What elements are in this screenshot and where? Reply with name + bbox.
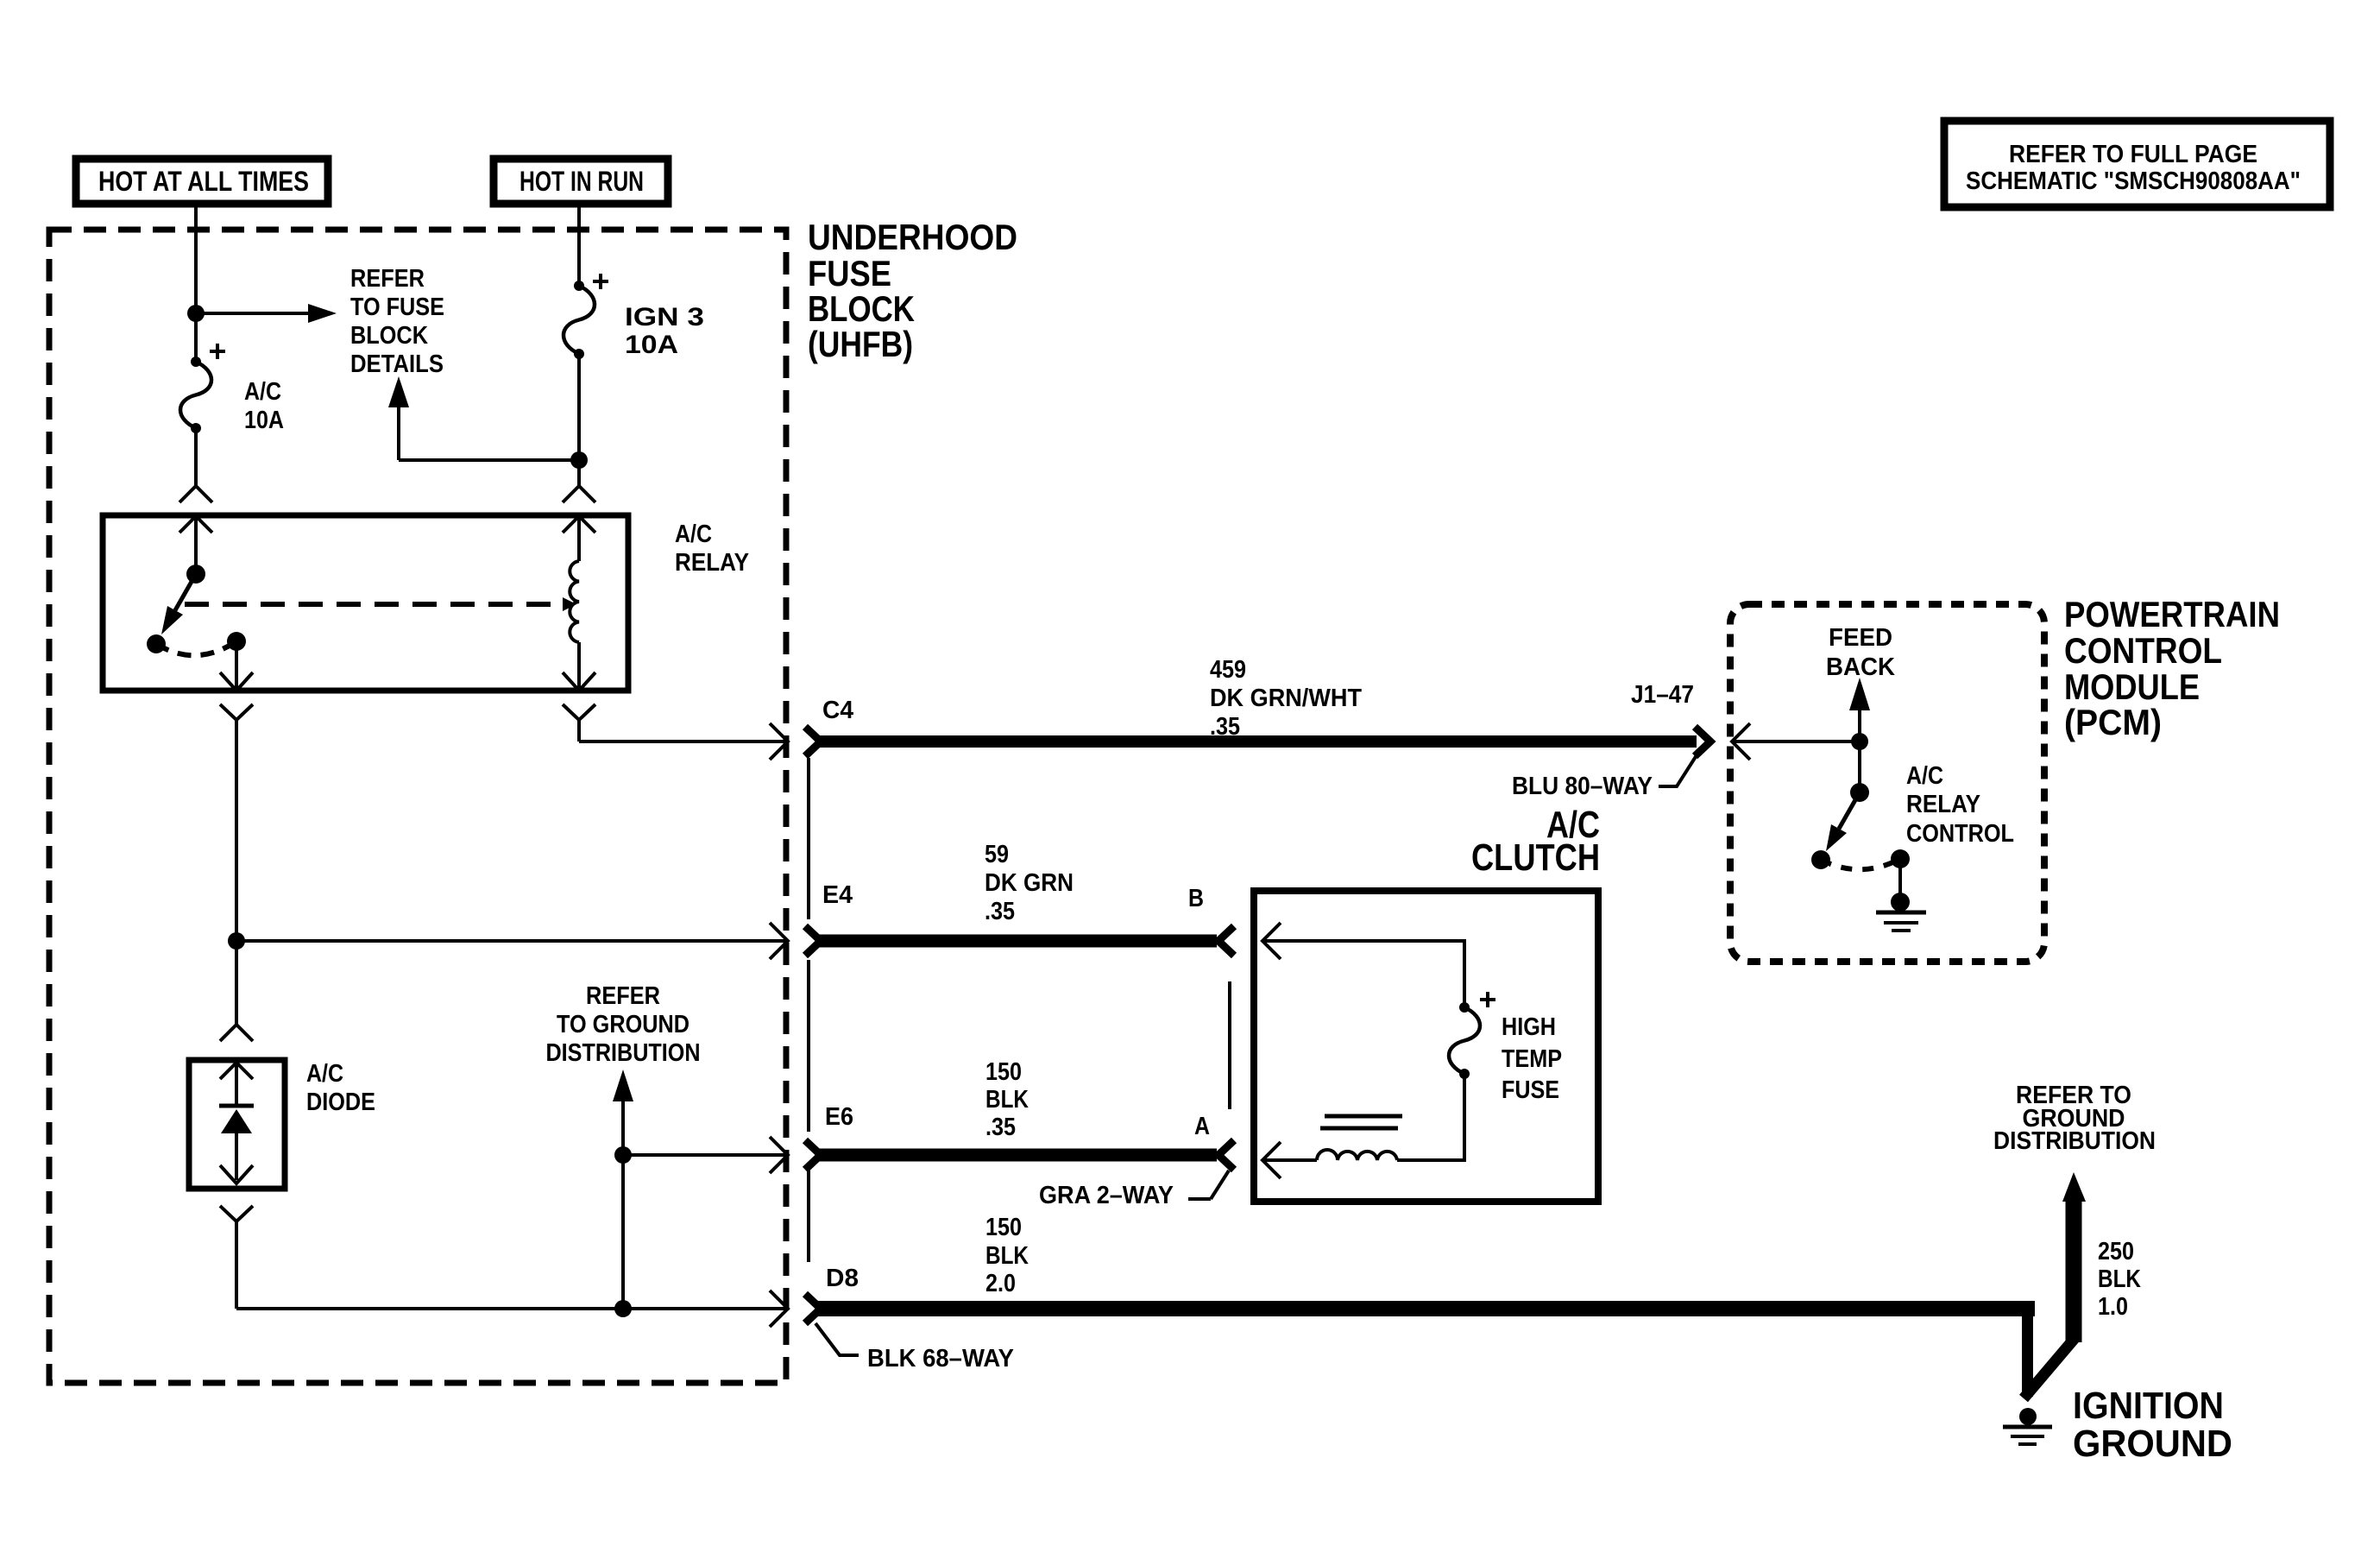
wire 459 C4 to J1-47 (805, 727, 1710, 756)
junction node E6 (614, 1146, 632, 1164)
relay contact right (227, 632, 246, 651)
wire IGN3 fuse to junction (577, 354, 581, 460)
svg-text:REFER: REFER (586, 982, 660, 1010)
wire to E6 (623, 1153, 786, 1157)
svg-text:DETAILS: DETAILS (350, 350, 444, 378)
label A/C RELAY (675, 521, 749, 577)
pin label E6 (825, 1103, 853, 1131)
relay coil (570, 561, 579, 691)
svg-text:FUSE: FUSE (1502, 1076, 1559, 1104)
svg-text:GRA 2–WAY: GRA 2–WAY (1039, 1182, 1174, 1209)
pin label J1-47 (1631, 681, 1694, 709)
svg-text:TO FUSE: TO FUSE (350, 293, 444, 321)
svg-text:A/C: A/C (1906, 762, 1943, 790)
svg-text:REFER: REFER (350, 265, 425, 293)
border arrow D8 (770, 1290, 788, 1327)
wire coil pin to C4 (579, 740, 786, 743)
relay switch output wire (235, 641, 238, 691)
svg-text:CONTROL: CONTROL (2064, 630, 2222, 671)
border arrow E6 (770, 1137, 788, 1173)
svg-text:BLK: BLK (985, 1242, 1029, 1270)
svg-text:TO GROUND: TO GROUND (557, 1011, 689, 1038)
svg-text:J1–47: J1–47 (1631, 681, 1694, 709)
svg-text:FUSE: FUSE (808, 253, 891, 293)
label IGNITION GROUND (2073, 1385, 2232, 1465)
label box HOT IN RUN (494, 159, 668, 204)
relay common node (186, 565, 205, 584)
ignition ground node (2019, 1408, 2037, 1425)
wire label 250 BLK 1.0 (2098, 1238, 2141, 1321)
connector female half at relay coil pin (563, 486, 595, 502)
PCM switch contact right (1891, 849, 1910, 868)
pin label D8 (826, 1265, 859, 1292)
border arrow E4 (770, 923, 788, 959)
connector line B to A (1228, 981, 1231, 1109)
svg-text:BLOCK: BLOCK (808, 288, 915, 329)
relay contact left (147, 634, 166, 653)
svg-text:UNDERHOOD: UNDERHOOD (808, 217, 1017, 257)
PCM switch arm (1826, 792, 1860, 851)
svg-text:BACK: BACK (1826, 653, 1895, 681)
svg-text:DIODE: DIODE (306, 1089, 375, 1116)
label UNDERHOOD FUSE BLOCK (UHFB) (808, 217, 1017, 364)
clutch coil (1262, 1074, 1464, 1178)
connector female half below relay coil (563, 704, 595, 741)
junction node A/C feed (187, 305, 205, 322)
underhood fuse block (UHFB) dashed enclosure (49, 230, 786, 1383)
svg-text:GROUND: GROUND (2073, 1423, 2232, 1465)
PCM switch common node (1850, 783, 1869, 802)
svg-text:A/C: A/C (306, 1060, 343, 1088)
svg-text:10A: 10A (625, 331, 678, 359)
svg-text:E4: E4 (822, 881, 853, 909)
connector male half relay coil bottom (563, 672, 595, 691)
label A/C 10A (244, 378, 284, 434)
PCM switch contact left (1811, 850, 1830, 869)
svg-text:150: 150 (985, 1058, 1022, 1086)
wire from HOT IN RUN (577, 205, 581, 286)
connector female half below diode (220, 1206, 253, 1221)
svg-text:.35: .35 (985, 898, 1015, 925)
svg-text:POWERTRAIN: POWERTRAIN (2064, 594, 2280, 634)
label FEED BACK (1826, 624, 1895, 681)
svg-text:CLUTCH: CLUTCH (1471, 836, 1600, 879)
fuse IGN 3 10A (564, 274, 608, 359)
svg-text:(PCM): (PCM) (2064, 702, 2162, 742)
connector line E4 to E6 (807, 960, 810, 1132)
note REFER TO GROUND DISTRIBUTION left (546, 982, 701, 1067)
wire label 459 DK GRN/WHT .35 (1210, 656, 1362, 741)
label IGN 3 10A (625, 303, 704, 359)
clutch feed wire B (1262, 923, 1464, 1007)
svg-text:C4: C4 (822, 697, 853, 724)
wire A/C fuse to relay (194, 428, 198, 486)
svg-text:BLOCK: BLOCK (350, 322, 428, 350)
border arrow C4 (770, 723, 788, 760)
svg-text:BLU 80–WAY: BLU 80–WAY (1512, 773, 1653, 800)
diode D1 symbol (219, 1106, 254, 1180)
wire 150 D8 ground (805, 1172, 2086, 1398)
connector male half diode bottom (220, 1165, 253, 1183)
svg-text:TEMP: TEMP (1502, 1045, 1562, 1073)
svg-text:D8: D8 (826, 1265, 859, 1292)
label A/C CLUTCH (1471, 804, 1600, 879)
connector male half relay pin 2 (220, 672, 253, 691)
connector female half at relay pin 1 (179, 486, 212, 502)
svg-text:BLK: BLK (985, 1086, 1029, 1114)
arrow to fuse block details (196, 304, 337, 323)
wire to E4 (236, 939, 786, 943)
svg-text:SCHEMATIC "SMSCH90808AA": SCHEMATIC "SMSCH90808AA" (1966, 167, 2301, 195)
pin label C4 (822, 697, 853, 724)
A/C clutch box (1254, 891, 1598, 1202)
svg-text:250: 250 (2098, 1238, 2134, 1265)
junction node D8 (614, 1300, 632, 1317)
svg-text:HOT AT ALL TIMES: HOT AT ALL TIMES (98, 166, 309, 197)
svg-text:IGNITION: IGNITION (2073, 1385, 2224, 1427)
arrow up toward DETAILS note (388, 376, 579, 460)
connector male half diode top (220, 1063, 253, 1106)
connector male half relay pin 1 (179, 516, 212, 574)
PCM ground symbol (1876, 912, 1926, 931)
relay actuation dashed link (185, 597, 576, 611)
label HIGH TEMP FUSE (1502, 1013, 1562, 1104)
PCM contact dashed travel arc (1821, 859, 1900, 869)
wire label 150 BLK 2.0 (985, 1214, 1029, 1297)
svg-text:RELAY: RELAY (675, 549, 749, 577)
wire 59 E4 to B (805, 926, 1234, 956)
svg-text:2.0: 2.0 (985, 1270, 1016, 1297)
svg-text:MODULE: MODULE (2064, 666, 2200, 707)
ignition ground symbol (2003, 1427, 2052, 1444)
PCM dashed enclosure (1730, 604, 2044, 962)
pin label E4 (822, 881, 853, 909)
pin label B (1188, 885, 1204, 912)
connector label GRA 2-WAY (1039, 1171, 1229, 1209)
connector male half relay coil pin (563, 516, 595, 561)
PCM ground wire (1898, 859, 1902, 902)
svg-text:10A: 10A (244, 407, 284, 434)
label POWERTRAIN CONTROL MODULE (PCM) (2064, 594, 2280, 742)
svg-text:BLK: BLK (2098, 1265, 2141, 1293)
connector female half below relay pin 2 (220, 704, 253, 941)
svg-text:A/C: A/C (244, 378, 281, 406)
svg-text:CONTROL: CONTROL (1906, 820, 2014, 848)
arrow to ground distribution left (613, 1070, 633, 1309)
label A/C DIODE (306, 1060, 375, 1116)
connector line E6 to D8 (807, 1170, 810, 1262)
relay K1 A/C RELAY box (103, 515, 628, 691)
svg-text:150: 150 (985, 1214, 1022, 1241)
fuse HIGH TEMP (1449, 992, 1495, 1079)
PCM feedback junction node (1851, 733, 1868, 750)
wire label 59 DK GRN .35 (985, 841, 1074, 925)
svg-text:E6: E6 (825, 1103, 853, 1131)
svg-text:459: 459 (1210, 656, 1246, 684)
svg-text:HOT IN RUN: HOT IN RUN (519, 166, 644, 197)
PCM switch common wire (1858, 741, 1861, 792)
connector line C4 to E4 (807, 758, 810, 919)
note REFER TO FUSE BLOCK DETAILS (350, 265, 444, 378)
svg-text:A/C: A/C (675, 521, 712, 548)
clutch plates (1320, 1116, 1402, 1128)
label box HOT AT ALL TIMES (76, 159, 328, 204)
A/C diode box (189, 1060, 285, 1189)
connector label BLU 80-WAY (1512, 755, 1697, 800)
connector female half above diode (220, 1025, 253, 1041)
note REFER TO GROUND DISTRIBUTION right (1993, 1082, 2156, 1155)
relay switch arm (161, 574, 196, 634)
svg-text:59: 59 (985, 841, 1009, 868)
svg-text:BLK 68–WAY: BLK 68–WAY (867, 1345, 1014, 1373)
pin label A (1194, 1113, 1210, 1140)
fuse A/C 10A (180, 344, 225, 433)
wire from HOT AT ALL TIMES (194, 205, 198, 362)
feedback arrow (1849, 678, 1870, 741)
label A/C RELAY CONTROL (1906, 762, 2014, 848)
svg-text:DISTRIBUTION: DISTRIBUTION (546, 1039, 701, 1067)
svg-text:DK GRN: DK GRN (985, 869, 1074, 897)
wire 150 E6 to A (805, 1140, 1234, 1170)
svg-text:HIGH: HIGH (1502, 1013, 1556, 1041)
svg-text:REFER TO FULL PAGE: REFER TO FULL PAGE (2009, 141, 2257, 168)
svg-text:1.0: 1.0 (2098, 1293, 2128, 1321)
svg-text:B: B (1188, 885, 1204, 912)
svg-text:A: A (1194, 1113, 1210, 1140)
wire E4 junction to diode (235, 941, 238, 1025)
svg-text:IGN 3: IGN 3 (625, 303, 704, 331)
svg-text:RELAY: RELAY (1906, 791, 1980, 818)
junction node IGN3 (570, 451, 588, 469)
PCM border arrow J1-47 (1732, 723, 1860, 760)
svg-text:.35: .35 (1210, 713, 1240, 741)
svg-text:(UHFB): (UHFB) (808, 324, 913, 364)
note box REFER TO FULL PAGE SCHEMATIC (1944, 121, 2330, 207)
svg-text:DK GRN/WHT: DK GRN/WHT (1210, 685, 1362, 712)
junction node E4 (228, 932, 245, 950)
wire IGN3 junction to relay coil (577, 460, 581, 486)
connector label BLK 68-WAY (815, 1323, 1014, 1373)
relay contact dashed travel arc (156, 641, 236, 655)
PCM ground node (1891, 893, 1910, 912)
svg-text:FEED: FEED (1829, 624, 1892, 652)
wire label 150 BLK .35 (985, 1058, 1029, 1141)
svg-text:DISTRIBUTION: DISTRIBUTION (1993, 1127, 2156, 1155)
wire diode to D8 (236, 1221, 786, 1309)
svg-text:.35: .35 (985, 1114, 1016, 1141)
